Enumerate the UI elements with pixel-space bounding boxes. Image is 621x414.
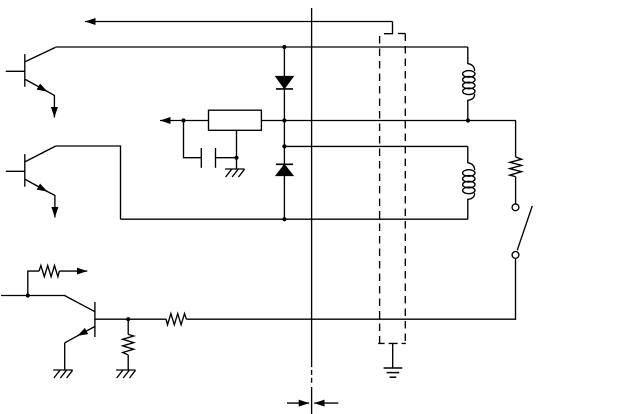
node dot Q3 base — [126, 317, 130, 321]
wire diode column — [283, 47, 285, 219]
ground chassis under Q3 — [53, 370, 72, 378]
wire Q3 input left — [1, 295, 66, 297]
resistor R4 vertical — [123, 319, 134, 370]
wire coupling rail (diodes to L2 top) — [284, 145, 467, 147]
wire mid rail (U1 to right branch) — [261, 120, 516, 122]
wire capacitor branch from node A — [184, 121, 202, 158]
wire R3 right arrow — [59, 270, 87, 272]
wire right branch down — [515, 121, 517, 157]
shield dashed bottom — [378, 342, 406, 344]
shield dashed left — [379, 36, 381, 343]
diode D2 — [276, 164, 293, 175]
inductor L2 — [463, 146, 475, 219]
wire shield to earth ground — [392, 343, 394, 368]
wire C1 to node B — [216, 157, 237, 159]
ground chassis under R4 — [116, 370, 135, 378]
axis centerline — [311, 8, 313, 414]
ground earth under shield — [384, 368, 403, 377]
node dot A — [181, 118, 185, 122]
node dot B — [234, 156, 238, 160]
node dot L1 bottom — [466, 118, 470, 122]
wire R1 to switch — [515, 177, 517, 204]
resistor R1 vertical — [510, 157, 522, 177]
wire feedback line with left arrow — [85, 21, 393, 23]
wire Q2 collector to bottom rail — [56, 146, 121, 219]
box U1 — [209, 110, 262, 130]
node dot Q3 input — [26, 293, 30, 297]
node dot coupling rail — [282, 144, 286, 148]
transistor Q3 — [65, 296, 95, 343]
ground chassis under node B — [225, 169, 245, 177]
wire Q2 emitter output down arrow — [54, 195, 56, 218]
shield dashed top dash — [398, 33, 405, 35]
resistor R2 horizontal — [166, 314, 186, 325]
node dot top rail — [282, 45, 286, 49]
node dot mid rail — [282, 118, 286, 122]
node dot bottom rail — [282, 217, 286, 221]
transistor Q1 — [25, 47, 56, 95]
wire Q3 emitter to ground — [64, 343, 66, 370]
wire mid rail left arrow — [160, 120, 208, 122]
wire feedback hook to shield — [384, 22, 393, 34]
shield dashed right — [404, 34, 406, 344]
resistor R3 horizontal — [39, 266, 59, 277]
wire U1 bottom pin — [236, 130, 238, 157]
transistor Q2 — [25, 146, 56, 195]
dimension arrow left — [287, 402, 309, 404]
switch S1 — [512, 204, 532, 258]
capacitor C1 — [201, 148, 215, 168]
wire Q2 base lead — [6, 170, 25, 172]
diode D1 — [276, 77, 293, 89]
wire top rail (Q1 collector to L1 top) — [55, 46, 467, 48]
wire to R3 — [28, 271, 39, 295]
wire R2 to Q3 base — [95, 318, 166, 320]
inductor L1 — [463, 47, 475, 121]
wire bottom rail (to L2 bottom) — [121, 218, 468, 220]
wire Q1 base lead — [6, 70, 25, 72]
dimension arrow right — [314, 402, 338, 404]
wire switch to bottom return — [186, 258, 515, 319]
wire node B to ground — [236, 158, 238, 169]
wire Q1 emitter output down arrow — [53, 95, 55, 118]
